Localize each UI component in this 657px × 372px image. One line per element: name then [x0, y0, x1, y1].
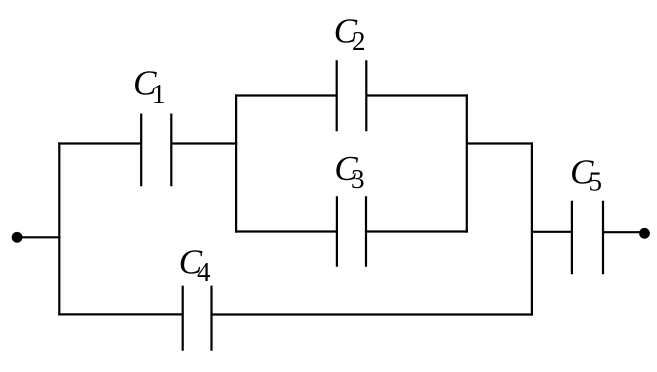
label C1	[133, 64, 165, 110]
svg-text:3: 3	[351, 164, 365, 194]
wire box right edge	[466, 94, 468, 232]
label C5	[570, 152, 602, 196]
wire right rail	[531, 142, 533, 315]
wire C1 to box left edge	[171, 142, 237, 144]
capacitor C4	[183, 286, 212, 351]
svg-text:1: 1	[152, 79, 166, 109]
svg-text:2: 2	[352, 26, 366, 56]
wire left terminal to left rail	[17, 236, 60, 238]
capacitor C1	[141, 114, 171, 187]
svg-text:5: 5	[589, 167, 603, 197]
wire box top edge right segment	[366, 94, 468, 96]
wire bottom rail right segment	[212, 313, 532, 315]
wire box bottom edge right segment	[366, 230, 468, 232]
terminal node right	[640, 229, 649, 238]
wire bottom rail left segment	[58, 313, 183, 315]
wire top rail to C1	[58, 142, 141, 144]
wire C5 to right terminal	[603, 231, 645, 233]
terminal node left	[13, 233, 22, 242]
wire box top edge left segment	[235, 94, 337, 96]
svg-text:4: 4	[197, 257, 211, 287]
capacitor C2	[337, 60, 367, 131]
label C2	[334, 12, 366, 57]
wire left rail	[58, 142, 60, 315]
capacitor C3	[337, 196, 366, 267]
wire box bottom edge left segment	[235, 230, 337, 232]
wire box to right rail	[467, 142, 533, 144]
wire right rail to C5	[532, 231, 572, 233]
label C3	[334, 149, 364, 194]
label C4	[179, 242, 211, 287]
capacitor C5	[572, 201, 603, 274]
wire box left edge	[235, 94, 237, 232]
